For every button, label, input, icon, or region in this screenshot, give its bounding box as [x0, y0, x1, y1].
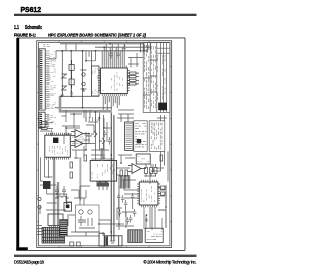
capacitor C1 cluster — [109, 44, 126, 59]
wires bottom-left — [40, 194, 68, 226]
svg-text:Schematic: Schematic — [25, 25, 42, 31]
op-amp U3B — [71, 140, 89, 148]
wires right column — [116, 151, 168, 230]
gray bus into U4 — [101, 148, 104, 161]
svg-text:DS51341B-page 18: DS51341B-page 18 — [14, 260, 45, 265]
wires to sheet border bottom-left — [37, 226, 44, 235]
wires opamp — [86, 125, 95, 144]
svg-text:© 2004 Microchip Technology In: © 2004 Microchip Technology Inc. — [144, 260, 197, 265]
ribbon bus hatch — [119, 175, 130, 189]
connector J9 — [99, 233, 104, 246]
wires mid right — [117, 110, 134, 126]
IC U2 — [45, 133, 71, 160]
crystal Y1 — [81, 70, 87, 89]
notes table — [134, 121, 147, 152]
power bus gray — [59, 96, 62, 111]
connector J2 — [39, 112, 49, 128]
op-amp U5 — [128, 164, 146, 174]
op-amp U3A — [71, 130, 89, 138]
bus arrow end — [110, 241, 115, 243]
module X1 — [92, 66, 100, 96]
capacitor C5 C6 — [50, 130, 53, 137]
diode D2 — [69, 75, 74, 89]
connector J1 — [39, 49, 55, 110]
relay K1 — [136, 154, 150, 164]
component stack right of U6 — [158, 186, 165, 195]
inductor L1 — [55, 196, 69, 198]
ground symbols — [55, 88, 148, 221]
sheet border frame — [37, 41, 172, 248]
wire net mid-center — [86, 118, 135, 163]
svg-text:1.1: 1.1 — [14, 25, 19, 31]
svg-text:PS612: PS612 — [21, 5, 42, 14]
bus pair vertical — [111, 113, 114, 242]
title block — [143, 43, 170, 113]
svg-text:FIGURE B-1:: FIGURE B-1: — [14, 33, 36, 38]
diode D5 D6 — [91, 131, 105, 144]
wires bottom bus — [67, 215, 124, 236]
wire riser column — [86, 110, 104, 151]
capacitor cluster mid — [103, 130, 132, 223]
IC U7 — [48, 214, 63, 228]
resistor R10 R11 — [70, 155, 163, 178]
connector J8 hatch — [60, 220, 67, 237]
zener D3 — [62, 74, 67, 90]
resistor network RN1 — [127, 72, 139, 85]
net labels J1 — [47, 54, 56, 107]
capacitor C10 — [55, 186, 66, 196]
connector J5 vertical — [125, 122, 133, 150]
mounting hole H1 — [38, 197, 41, 208]
wires U1 bottom — [103, 96, 119, 112]
diode D1 — [69, 60, 74, 74]
power jack dark cell — [106, 237, 108, 246]
wire net top-middle — [49, 44, 143, 68]
capacitor bank bottom-right — [117, 193, 136, 225]
voltage regulator VR1 — [40, 181, 57, 194]
title block logo — [158, 103, 167, 111]
junction dots — [56, 43, 166, 233]
IC U6 — [137, 180, 160, 207]
wire net bottom-mid — [66, 186, 134, 228]
connector J11 hatch — [128, 230, 142, 243]
reference designator text — [43, 45, 50, 47]
transistor Q1 group — [76, 205, 100, 232]
connector J12 — [145, 228, 163, 242]
notes table dark cell — [137, 139, 141, 143]
microcontroller U1 — [98, 65, 130, 96]
svg-text:HPC EXPLORER BOARD SCHEMATIC (: HPC EXPLORER BOARD SCHEMATIC (SHEET 1 OF… — [48, 33, 146, 38]
gray bus left-bottom — [53, 157, 55, 226]
wires U1 top fan — [102, 44, 124, 66]
wires bottom-right — [116, 186, 166, 229]
wire net mid-left — [40, 110, 98, 144]
IC U4 — [90, 158, 116, 183]
wire net right column — [122, 115, 167, 230]
connector J7 grid — [42, 228, 65, 244]
U2 label text — [72, 137, 84, 144]
wires center infill — [62, 126, 90, 159]
resistor pack RP2 — [145, 164, 158, 177]
wire mesh left labels — [47, 116, 56, 127]
resistor ladder R7 — [86, 117, 100, 122]
wires U2 to regulator — [41, 157, 53, 181]
wire h96 — [55, 96, 112, 108]
power jack J10 — [105, 236, 122, 246]
wire verticals top-left — [62, 42, 150, 107]
terminal blocks bottom border — [70, 242, 80, 246]
wire bus top — [56, 44, 150, 51]
resistor R3 R4 — [39, 122, 53, 130]
decoupling caps U4 — [97, 184, 109, 191]
dark blob U4 bottom — [97, 183, 110, 186]
notes text block — [149, 121, 165, 152]
IC U8 — [64, 203, 71, 212]
